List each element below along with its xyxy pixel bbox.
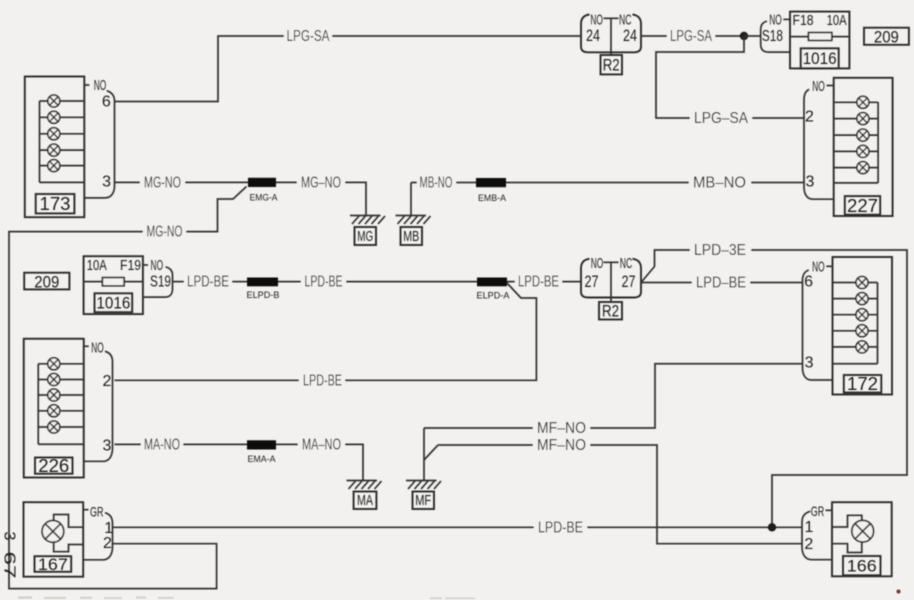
component box 1016 (middle) [95, 293, 133, 312]
wire LPD-BE branch from ELPD-A to 226 pin 2 [115, 283, 537, 389]
ground MF [406, 428, 441, 509]
svg-text:S19: S19 [150, 274, 171, 291]
junction node on LPG-SA [740, 32, 748, 40]
svg-text:6: 6 [102, 94, 111, 111]
svg-text:3: 3 [805, 174, 814, 191]
svg-text:LPG-SA: LPG-SA [670, 28, 712, 45]
wire LPG-SA from relay to junction [641, 28, 744, 45]
svg-text:LPD–BE: LPD–BE [696, 275, 746, 292]
svg-text:172: 172 [847, 374, 878, 394]
scan speckles bottom edge [18, 597, 475, 600]
svg-text:LPD-BE: LPD-BE [538, 519, 583, 536]
svg-text:MA–NO: MA–NO [302, 436, 341, 453]
svg-text:2: 2 [804, 536, 813, 553]
svg-text:MA-NO: MA-NO [144, 436, 180, 453]
wire LPD-BE from ELPD-B to ELPD-A [278, 274, 477, 291]
svg-text:S18: S18 [762, 28, 783, 45]
svg-text:NO: NO [151, 257, 164, 274]
svg-text:MF–NO: MF–NO [537, 437, 586, 454]
fuse F18 10A block [790, 12, 849, 69]
svg-text:24: 24 [623, 27, 637, 45]
splice ELPD-B [247, 278, 280, 302]
connector 173 (lamp cluster) [25, 77, 115, 218]
scan speck bottom right [897, 590, 901, 594]
svg-text:6: 6 [804, 273, 813, 290]
wire MB-NO from splice to 227 pin 3 [506, 174, 804, 191]
wire MF-NO upper from ground to 172 pin 3 [424, 364, 803, 437]
svg-text:MG–NO: MG–NO [301, 174, 341, 191]
wire LPG-SA branch from junction to 227 pin 2 [656, 36, 804, 127]
relay R2 contacts 27-27 [581, 255, 641, 302]
connector 172 (lamp cluster) [803, 257, 893, 395]
svg-text:27: 27 [585, 273, 599, 291]
wire LPD-3E from relay to 166 via right edge [641, 242, 907, 527]
svg-text:EMA-A: EMA-A [248, 454, 277, 465]
component box 1016 (top) [801, 48, 839, 68]
ground MA [347, 481, 382, 510]
svg-text:EMG-A: EMG-A [250, 193, 279, 204]
page reference box 209 (left) [24, 272, 69, 291]
svg-text:ELPD-B: ELPD-B [247, 290, 280, 301]
svg-text:LPD-BE: LPD-BE [187, 274, 229, 291]
wire MG-NO from 173 pin 3 to splice [115, 174, 249, 191]
svg-text:227: 227 [847, 196, 878, 216]
svg-text:3: 3 [102, 174, 111, 191]
svg-text:2: 2 [805, 109, 814, 126]
svg-text:LPD-BE: LPD-BE [305, 274, 343, 291]
svg-text:166: 166 [847, 557, 877, 576]
svg-text:2: 2 [103, 535, 112, 552]
svg-text:1: 1 [804, 519, 813, 536]
lamp connector 167 [24, 502, 114, 577]
wire MG-NO branch from splice to left edge loop [9, 187, 247, 589]
wire MG-NO from splice to ground MG [276, 174, 366, 215]
splice ELPD-A [477, 278, 511, 302]
svg-text:NO: NO [591, 255, 604, 272]
svg-text:LPD–3E: LPD–3E [694, 242, 746, 259]
svg-text:MF: MF [415, 492, 431, 509]
wire LPD-BE from S19 to splice ELPD-B [173, 274, 248, 291]
svg-text:ELPD-A: ELPD-A [477, 291, 511, 302]
splice EMG-A [248, 178, 278, 204]
svg-text:167: 167 [38, 555, 68, 574]
splice EMA-A [247, 440, 276, 465]
wire LPD-BE from relay to 172 pin 6 [641, 275, 803, 292]
svg-text:1016: 1016 [96, 294, 130, 312]
svg-text:MG: MG [357, 228, 373, 245]
svg-text:LPG–SA: LPG–SA [694, 110, 749, 127]
svg-text:27: 27 [622, 273, 636, 291]
svg-text:1016: 1016 [803, 50, 837, 68]
svg-text:MA: MA [357, 492, 373, 509]
wire from junction to S18 [744, 35, 761, 37]
svg-text:MB-NO: MB-NO [420, 174, 453, 191]
wire MB-NO from ground to splice [411, 174, 476, 191]
wire LPD-BE from ELPD-A to relay contact 27 [507, 274, 581, 291]
ground MB [396, 183, 431, 246]
relay R2 contacts 24-24 [581, 12, 641, 56]
svg-text:10A: 10A [827, 13, 847, 29]
svg-text:209: 209 [874, 28, 899, 47]
svg-text:LPD-BE: LPD-BE [518, 274, 559, 291]
svg-text:F19: F19 [120, 258, 141, 274]
svg-text:LPG-SA: LPG-SA [287, 28, 330, 45]
svg-text:209: 209 [34, 272, 59, 291]
splice EMB-A [476, 178, 507, 204]
svg-text:NC: NC [619, 12, 632, 29]
wire LPD-BE from 167 pin 1 to 166 pin 1 [113, 519, 803, 536]
svg-text:MF–NO: MF–NO [537, 420, 586, 437]
svg-text:67: 67 [0, 552, 17, 579]
wire LPG-SA from 173 pin 6 to relay R2 contact 24 [115, 28, 582, 102]
svg-text:NO: NO [812, 78, 825, 95]
splice connector S19 [143, 257, 173, 297]
svg-text:GR: GR [811, 503, 825, 519]
svg-text:MB–NO: MB–NO [693, 174, 746, 191]
svg-text:3: 3 [805, 355, 814, 372]
fuse F19 10A block [84, 256, 143, 314]
svg-text:LPD-BE: LPD-BE [303, 372, 342, 389]
wire MA-NO from splice to ground MA [276, 436, 363, 480]
wire MF-NO lower from ground to 166 pin 2 [424, 437, 802, 544]
svg-text:R2: R2 [603, 56, 620, 75]
svg-text:173: 173 [40, 194, 71, 214]
page reference box 209 (top right) [864, 28, 909, 47]
relay designator R2 (top) [601, 55, 623, 75]
svg-text:NO: NO [91, 340, 104, 357]
svg-text:3: 3 [102, 438, 111, 455]
svg-text:10A: 10A [87, 258, 107, 274]
svg-text:GR: GR [90, 503, 104, 519]
svg-text:3: 3 [0, 532, 17, 541]
svg-text:F18: F18 [793, 13, 814, 29]
svg-text:R2: R2 [602, 302, 619, 321]
connector 226 (lamp cluster) [24, 339, 113, 478]
wire MA-NO from 226 pin 3 to splice [115, 436, 248, 453]
svg-text:EMB-A: EMB-A [478, 193, 507, 204]
svg-text:NO: NO [94, 77, 107, 94]
ground MG [350, 216, 385, 246]
svg-text:NC: NC [620, 255, 633, 272]
svg-text:MG-NO: MG-NO [144, 174, 181, 191]
svg-text:2: 2 [102, 373, 111, 390]
connector 227 (lamp cluster) [804, 78, 893, 216]
page number 3-67 (rotated, left margin) [0, 532, 17, 579]
relay designator R2 (middle) [599, 302, 622, 321]
svg-text:226: 226 [38, 456, 69, 476]
splice connector S18 [761, 12, 790, 53]
junction node at 166 pin 1 [768, 523, 776, 531]
svg-text:NO: NO [590, 12, 603, 29]
svg-text:NO: NO [769, 12, 782, 29]
lamp connector 166 [802, 502, 892, 576]
svg-text:NO: NO [812, 259, 825, 276]
svg-text:MG-NO: MG-NO [147, 224, 183, 241]
svg-text:24: 24 [586, 27, 600, 45]
svg-text:MB: MB [403, 228, 419, 245]
